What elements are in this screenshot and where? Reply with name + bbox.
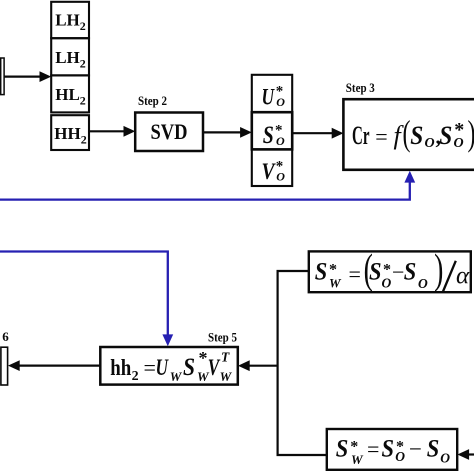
wire arrow HH2 to SVD (89, 126, 135, 137)
svg-text:O: O (382, 276, 392, 291)
wire arrow hh2 to cropped left box (8, 360, 100, 371)
svg-text:O: O (440, 451, 450, 466)
svg-text:O: O (276, 134, 285, 148)
wire arrow from cropped box to LH2 column (5, 71, 52, 82)
svg-text:V: V (262, 159, 276, 184)
svg-text:S: S (183, 352, 195, 381)
wire arrow entering bottom-right box from right edge (457, 449, 474, 460)
svg-text:=: = (367, 437, 379, 462)
svg-text:6: 6 (2, 329, 9, 344)
svg-text:=: = (144, 355, 156, 380)
box S*o (252, 112, 292, 149)
box (cropped) at top-left edge (1, 58, 4, 95)
svg-text:Step 5: Step 5 (208, 330, 237, 345)
svg-text:*: * (199, 348, 208, 368)
box S*w = S*o - So (327, 429, 457, 470)
blue feedback wire to Cr box (up arrow) (0, 171, 415, 200)
box V*o (252, 149, 292, 186)
svg-text:O: O (276, 95, 285, 109)
svg-text:Step 2: Step 2 (138, 93, 167, 108)
wire connector joining S*w boxes (278, 271, 327, 455)
svg-text:): ) (434, 245, 443, 292)
svg-text:U: U (262, 85, 276, 110)
svg-text:−: − (392, 260, 404, 285)
box LH2 (first) (51, 2, 89, 38)
box S*w = (S*o - So)/a (309, 245, 471, 292)
box hh2 = Uw S*w VTw (Step 5) (100, 347, 238, 385)
svg-text:W: W (329, 276, 342, 291)
wire arrow SVD to S*o (203, 127, 252, 138)
svg-text:O: O (418, 276, 428, 291)
svg-text:W: W (220, 369, 233, 384)
box HH2 (51, 115, 89, 150)
box (cropped) at bottom-left edge (1, 347, 8, 385)
blue feedback wire down to hh2 box (0, 252, 173, 347)
svg-text:W: W (170, 369, 183, 384)
svg-text:α: α (456, 263, 470, 290)
svg-text:S: S (410, 121, 423, 150)
svg-text:Cr: Cr (352, 121, 370, 150)
svg-text:S: S (404, 259, 417, 286)
svg-text:S: S (427, 436, 440, 463)
svg-text:O: O (425, 136, 435, 151)
svg-text:hh: hh (110, 355, 131, 380)
svg-text:O: O (276, 170, 285, 184)
svg-text:S: S (315, 259, 328, 286)
box LH2 (second) (51, 38, 89, 75)
box SVD (Step 2) (135, 113, 203, 152)
svg-text:Step 3: Step 3 (346, 80, 375, 95)
box U*o (252, 75, 292, 112)
svg-text:−: − (409, 437, 422, 462)
svg-text:=: = (349, 262, 361, 287)
box HL2 (51, 75, 89, 112)
wire arrow from connector to hh2 box (238, 360, 278, 371)
svg-text:U: U (156, 355, 169, 381)
svg-text:S: S (336, 436, 349, 463)
svg-text:S: S (382, 436, 395, 463)
svg-text:S: S (263, 122, 274, 149)
svg-text:): ) (468, 113, 474, 153)
svg-text:2: 2 (132, 369, 139, 384)
svg-text:O: O (395, 449, 405, 464)
wire arrow S*o to Cr box (292, 128, 343, 139)
svg-text:S: S (369, 259, 382, 286)
svg-text:S: S (439, 121, 452, 150)
svg-text:=: = (375, 124, 387, 149)
svg-text:SVD: SVD (151, 119, 188, 144)
box Cr = f(So,S*o) (Step 3, cropped right) (343, 99, 474, 170)
svg-text:T: T (221, 350, 230, 365)
svg-text:*: * (454, 119, 464, 141)
svg-text:W: W (351, 452, 364, 467)
svg-text:(: ( (403, 113, 411, 153)
